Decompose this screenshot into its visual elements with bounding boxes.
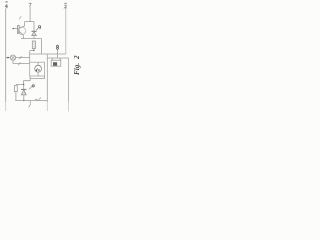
- svg-text:Fig.: Fig.: [73, 63, 81, 75]
- svg-text:2: 2: [73, 55, 81, 60]
